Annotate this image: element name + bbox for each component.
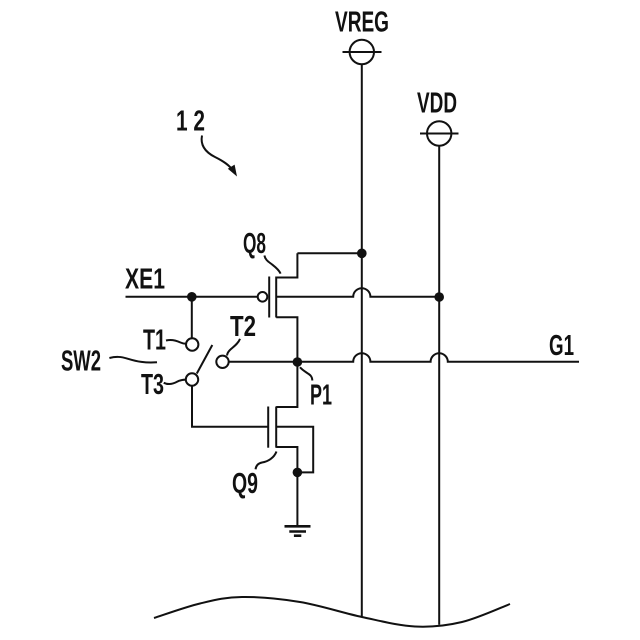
leader Q9 bbox=[256, 452, 277, 470]
svg-text:XE1: XE1 bbox=[125, 264, 165, 296]
ground bbox=[285, 526, 311, 535]
wire Q8 bulk to VDD with hop over VREG bbox=[276, 288, 439, 297]
svg-text:T1: T1 bbox=[143, 325, 166, 357]
leader T2 bbox=[227, 339, 240, 356]
wire XE1 bbox=[126, 296, 258, 298]
node Q8 bulk on VDD bbox=[434, 292, 444, 302]
leader P1 bbox=[300, 367, 312, 380]
leader arrow for 12 bbox=[202, 136, 237, 177]
switch terminal T1 bbox=[186, 338, 198, 350]
wire T3 branch down and to Q9 gate bbox=[192, 386, 268, 427]
wire Q9 bulk loop bbox=[276, 427, 313, 473]
node Q9 source/bulk junction bbox=[293, 468, 303, 478]
svg-text:P1: P1 bbox=[310, 380, 332, 412]
wire Q8 drain to VREG bbox=[297, 252, 361, 254]
leader Q8 bbox=[264, 256, 280, 274]
power terminal VDD bbox=[420, 121, 459, 145]
wire VDD vertical bbox=[438, 146, 440, 625]
power terminal VREG bbox=[343, 40, 382, 64]
switch terminal T2 bbox=[216, 356, 228, 368]
svg-text:SW2: SW2 bbox=[61, 346, 101, 378]
break wave bbox=[154, 597, 510, 627]
svg-text:1 2: 1 2 bbox=[176, 106, 205, 138]
transistor Q9 bbox=[268, 362, 297, 472]
wire Q9 source to ground bbox=[296, 472, 298, 525]
svg-text:Q8: Q8 bbox=[243, 228, 266, 260]
node P1 bbox=[293, 357, 303, 367]
wire T1 branch vertical bbox=[191, 297, 193, 339]
switch blade SW2 bbox=[197, 345, 213, 374]
leader T3 bbox=[164, 380, 186, 384]
leader SW2 bbox=[109, 357, 157, 363]
svg-text:VREG: VREG bbox=[335, 7, 389, 39]
net G1 wire with hops over VREG and VDD bbox=[229, 353, 579, 362]
wire VREG vertical bbox=[361, 64, 363, 617]
node Q8 drain on VREG bbox=[357, 249, 367, 259]
svg-text:T2: T2 bbox=[230, 311, 256, 343]
svg-text:G1: G1 bbox=[549, 330, 574, 362]
svg-text:Q9: Q9 bbox=[232, 468, 258, 500]
transistor Q8 bbox=[258, 253, 298, 361]
switch terminal T3 bbox=[186, 373, 198, 385]
leader T1 bbox=[166, 340, 186, 344]
svg-text:VDD: VDD bbox=[417, 88, 457, 120]
svg-text:T3: T3 bbox=[141, 369, 164, 401]
node XE1/T1 junction bbox=[187, 292, 197, 302]
